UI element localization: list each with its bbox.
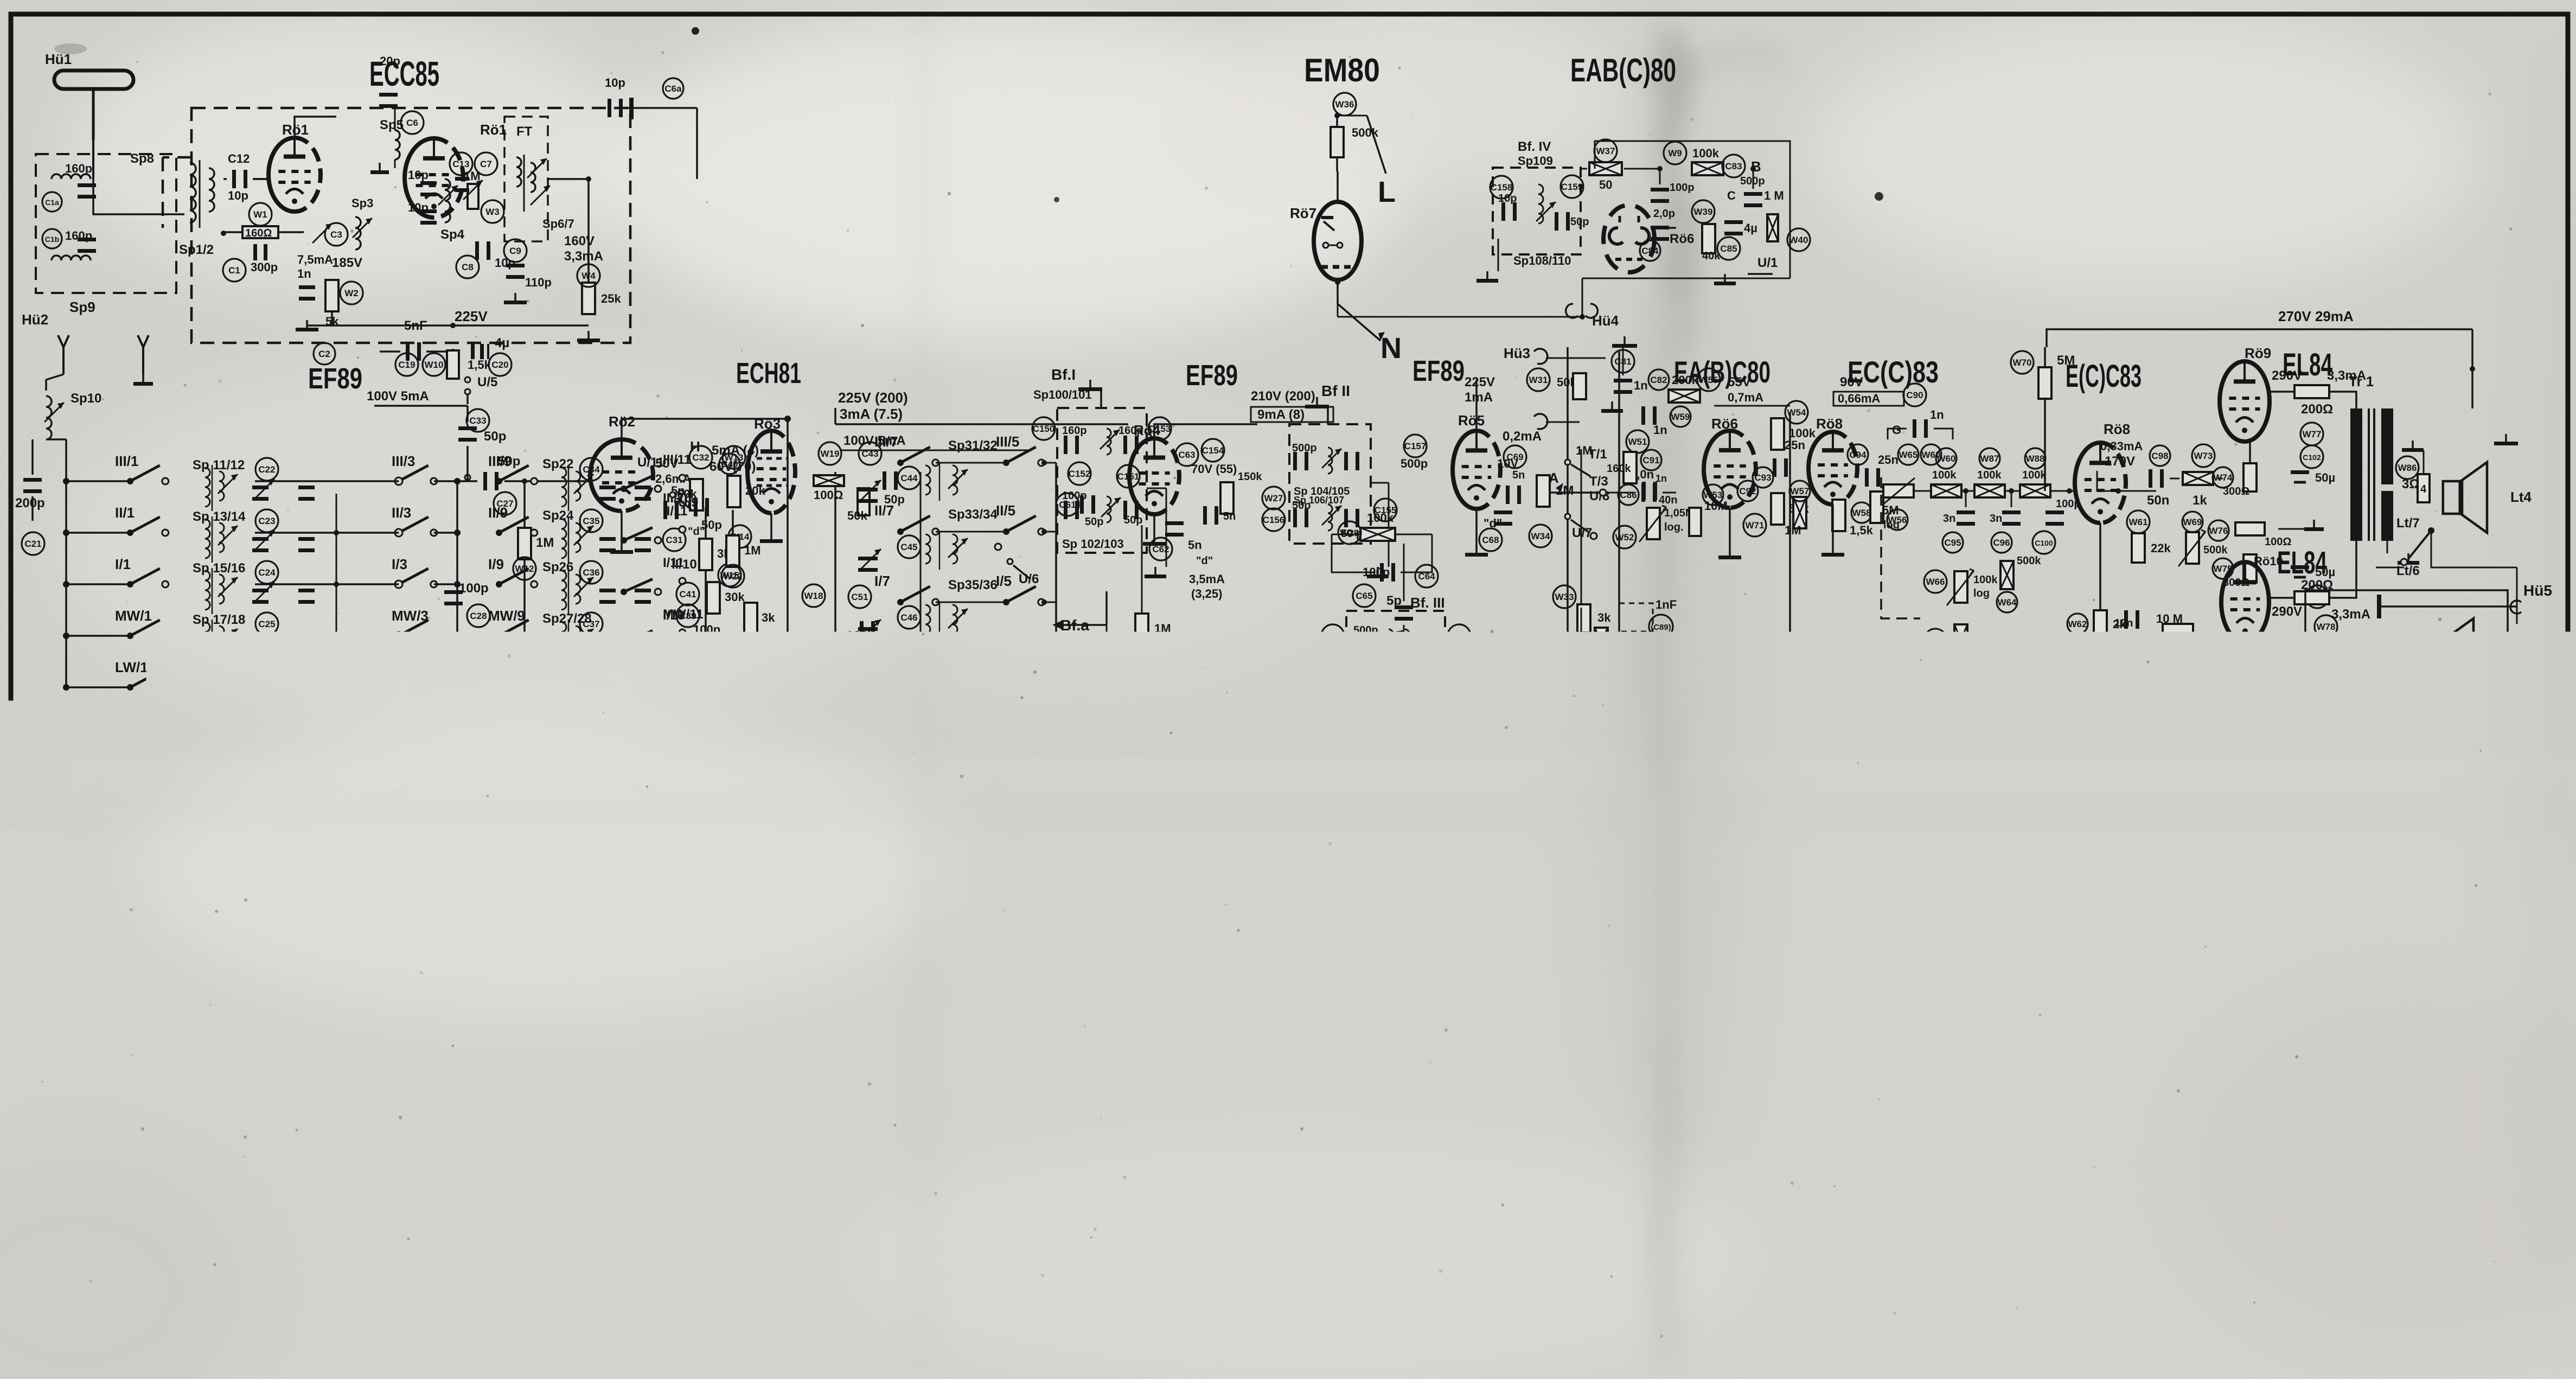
- svg-text:C83: C83: [1725, 161, 1742, 171]
- svg-text:5n: 5n: [1223, 510, 1236, 522]
- table caption 2: [1134, 1244, 1394, 1262]
- svg-text:Si 2: Si 2: [2331, 1054, 2353, 1067]
- capacitor C62 5n: [1149, 521, 1213, 567]
- svg-text:k': k': [753, 1202, 762, 1214]
- svg-text:3,3mA: 3,3mA: [564, 249, 603, 264]
- wattage symbol 3W: [1666, 1122, 1689, 1222]
- ground ecc83: [1821, 505, 1844, 557]
- resistor W89 10k: [1924, 624, 1992, 656]
- svg-text:C26: C26: [296, 733, 313, 743]
- switch I/5: [996, 573, 1047, 605]
- svg-text:160V: 160V: [564, 234, 595, 248]
- svg-text:a: a: [880, 1037, 887, 1051]
- wire Roe5 top: [1475, 380, 1478, 431]
- svg-text:Alle Spannungen gemessen mit M: Alle Spannungen gemessen mit Multizet I …: [2036, 1220, 2447, 1237]
- svg-text:g: g: [650, 1218, 656, 1230]
- capacitor C11: [1832, 1078, 1879, 1110]
- ref C36: [580, 561, 603, 584]
- capacitor 25n out: [1848, 444, 1899, 487]
- svg-text:10p: 10p: [495, 256, 515, 270]
- capacitor 100p fb: [1332, 534, 1438, 588]
- resistor W37 50: [1581, 139, 1663, 191]
- switch U/2: [1403, 833, 1560, 893]
- svg-text:Sp 15/16: Sp 15/16: [193, 561, 245, 576]
- svg-text:Sp10: Sp10: [71, 391, 101, 406]
- svg-text:U/1: U/1: [1757, 256, 1778, 270]
- svg-text:290V: 290V: [2272, 604, 2302, 619]
- wire row II: [255, 532, 399, 534]
- wire IF bus right: [1107, 625, 1404, 717]
- svg-text:25k: 25k: [601, 292, 621, 305]
- svg-text:C1b: C1b: [45, 235, 59, 244]
- svg-text:300V: 300V: [2139, 877, 2170, 892]
- svg-text:k: k: [849, 1099, 855, 1111]
- svg-text:90V: 90V: [1840, 375, 1863, 390]
- dashed 1nF box: [1619, 598, 1677, 639]
- capacitor C25b: [298, 640, 315, 655]
- label 2L5V: [2267, 766, 2296, 780]
- svg-text:a: a: [146, 1037, 154, 1051]
- svg-text:C10: C10: [1927, 1037, 1944, 1047]
- svg-text:Rö3: Rö3: [754, 416, 781, 432]
- switch U/9: [670, 492, 698, 510]
- svg-text:3 - 4: 3 - 4: [2439, 942, 2468, 959]
- tube Roe11 EL84: [2219, 693, 2270, 771]
- svg-text:1k: 1k: [2197, 743, 2211, 757]
- ref W9: [1664, 142, 1686, 164]
- label 225V 1mA: [1465, 368, 1586, 405]
- svg-text:f: f: [883, 1154, 887, 1168]
- svg-text:C1: C1: [228, 265, 240, 276]
- capacitor C35a: [599, 537, 616, 552]
- svg-text:5: 5: [1474, 1105, 1482, 1120]
- svg-text:W73: W73: [2194, 451, 2213, 461]
- resistor 150k: [1220, 471, 1262, 514]
- svg-text:C106: C106: [2116, 730, 2134, 738]
- label 290V b: [2272, 604, 2370, 622]
- capacitor C26b: [298, 692, 315, 707]
- svg-text:f: f: [126, 1154, 130, 1168]
- coil SpL1: [1931, 1068, 1977, 1090]
- svg-text:gT: gT: [284, 1098, 297, 1110]
- pinout tube EABC80: [415, 1023, 520, 1168]
- svg-text:100k: 100k: [1977, 469, 2002, 481]
- svg-text:100k: 100k: [1367, 511, 1394, 525]
- capacitor 50n coupling: [2147, 445, 2170, 508]
- svg-text:C99: C99: [2147, 707, 2164, 717]
- svg-text:W74: W74: [2214, 473, 2233, 483]
- switch I/9: [488, 556, 835, 588]
- svg-text:f: f: [364, 1154, 368, 1168]
- svg-text:Sp35/36: Sp35/36: [948, 578, 998, 592]
- Bf.II bottom: [1292, 500, 1363, 540]
- label 20k left: [117, 707, 181, 737]
- svg-text:a: a: [496, 1191, 502, 1203]
- coil Sp8 ps: [1888, 1054, 1929, 1090]
- wire Tr3 top right: [2236, 891, 2470, 987]
- svg-text:W25: W25: [1156, 650, 1175, 661]
- svg-text:W1: W1: [253, 209, 267, 220]
- wire anode to Tr1 b: [2349, 541, 2356, 598]
- pinout tube EL84: [525, 1023, 639, 1168]
- label EF89: [1412, 355, 1465, 387]
- svg-text:g1: g1: [397, 1096, 409, 1108]
- svg-text:W34: W34: [1531, 531, 1551, 541]
- switch III/5: [996, 433, 1047, 466]
- svg-text:Sp8: Sp8: [130, 151, 154, 166]
- resistor 40k: [1702, 224, 1721, 262]
- svg-text:W31: W31: [1529, 375, 1548, 385]
- label A: [1549, 470, 1563, 491]
- speaker Lt3: [2438, 618, 2519, 675]
- pinout tube AZ12: [771, 1023, 817, 1168]
- svg-text:10M: 10M: [1704, 499, 1728, 513]
- capacitor 50p U9: [694, 498, 722, 532]
- resistor 20k LW: [503, 678, 557, 733]
- wire row LW/5: [936, 742, 1056, 743]
- wire EM80 L: [1337, 116, 1386, 174]
- resistor W58 1,5k: [1832, 500, 1874, 537]
- svg-text:Lt/7: Lt/7: [2396, 516, 2420, 531]
- svg-text:LW/3: LW/3: [392, 659, 425, 675]
- svg-text:4: 4: [2278, 943, 2285, 955]
- svg-text:4: 4: [2303, 937, 2309, 949]
- svg-text:W19: W19: [821, 449, 840, 459]
- svg-text:Rö6: Rö6: [1711, 416, 1738, 432]
- capacitor C37b: [635, 640, 651, 655]
- svg-text:f: f: [131, 1180, 135, 1192]
- switch II/5: [996, 502, 1047, 535]
- svg-text:1 M: 1 M: [1764, 189, 1784, 202]
- switch MW/3: [392, 608, 461, 640]
- svg-text:50k: 50k: [847, 509, 867, 522]
- resistor W15 3k: [699, 507, 741, 717]
- pinout socket EF89: [315, 1180, 394, 1248]
- svg-text:W17: W17: [704, 683, 723, 693]
- svg-text:Rö12: Rö12: [2072, 900, 2104, 915]
- svg-text:C38: C38: [583, 671, 599, 681]
- resistor W70 5M: [2011, 347, 2075, 491]
- ground Roe4: [1143, 514, 1166, 546]
- svg-text:k': k': [649, 1202, 657, 1214]
- svg-text:270V: 270V: [2257, 648, 2290, 664]
- capacitor C38a: [599, 692, 616, 707]
- svg-text:C8: C8: [462, 262, 474, 272]
- dashed box FT: [504, 117, 548, 241]
- svg-text:20k: 20k: [117, 722, 139, 737]
- lamp L1: [2110, 1073, 2132, 1116]
- svg-text:"d" = dämpfungsarm: "d" = dämpfungsarm: [1537, 1071, 1688, 1088]
- svg-text:I/3: I/3: [392, 556, 407, 572]
- svg-text:aT: aT: [449, 1037, 463, 1051]
- capacitor C22b: [298, 486, 315, 501]
- svg-text:4µ: 4µ: [1744, 221, 1757, 235]
- resistor 100k det: [1692, 146, 1761, 177]
- svg-text:3n: 3n: [1990, 513, 2002, 525]
- title block bottom row: [2041, 1354, 2145, 1364]
- ground Roe2: [610, 511, 633, 554]
- svg-text:1142.002-00002 Sp: 1142.002-00002 Sp: [2300, 1329, 2532, 1361]
- svg-text:C28: C28: [470, 611, 487, 621]
- svg-text:255V (240): 255V (240): [2266, 786, 2331, 801]
- label Bf.IV: [1518, 139, 1553, 168]
- capacitor C38b: [635, 692, 651, 707]
- svg-text:W27: W27: [1264, 493, 1283, 503]
- Bf.I top circuit: [1062, 425, 1143, 455]
- label ECH81: [736, 357, 801, 390]
- resistor 3k mix: [702, 584, 825, 699]
- switch MW/5: [996, 643, 1047, 675]
- label 225V 3mA: [835, 390, 1128, 424]
- svg-text:3: 3: [2312, 1043, 2318, 1055]
- svg-text:a': a': [322, 1236, 330, 1248]
- svg-text:Rö9: Rö9: [2245, 345, 2271, 361]
- capacitor 500p osc: [867, 759, 980, 836]
- svg-text:W11: W11: [393, 707, 412, 717]
- wire lamps: [2094, 1090, 2197, 1118]
- svg-text:W21: W21: [1033, 771, 1052, 781]
- svg-text:5M: 5M: [1882, 503, 1899, 517]
- label U/11 H: [637, 438, 759, 474]
- svg-text:Si 1: Si 1: [2168, 911, 2189, 925]
- tube Roe5 EF89: [1453, 412, 1500, 509]
- svg-text:a: a: [904, 1037, 911, 1051]
- resistor W62 2k: [2067, 523, 2126, 637]
- coil Sp26: [542, 560, 593, 614]
- fuse Si2: [2327, 1042, 2372, 1107]
- resistor W60 100k: [1931, 448, 1961, 497]
- tube Roe1 triode B: [405, 122, 507, 218]
- svg-text:A: A: [1549, 470, 1559, 486]
- heater Hue5: [2377, 582, 2552, 618]
- wattage symbol 0,5W: [1572, 1122, 1607, 1222]
- arrow Bf.a in: [1052, 591, 1107, 634]
- label 210V 9mA: [1251, 389, 1333, 422]
- svg-text:log: log: [1883, 519, 1900, 531]
- wire ps right: [2386, 1069, 2387, 1118]
- svg-text:W57: W57: [1791, 486, 1810, 496]
- pot W69 500k: [2178, 512, 2228, 566]
- capacitor 10p upper: [408, 168, 437, 196]
- resistor 3ohm: [2396, 440, 2430, 502]
- capacitor 5n d: [1479, 510, 1552, 551]
- ref C24: [255, 561, 278, 584]
- svg-text:C66: C66: [1490, 699, 1506, 710]
- svg-text:a: a: [166, 1191, 172, 1203]
- capacitor 3n A: [1942, 491, 1975, 553]
- coil Sp8 upper: [52, 162, 92, 179]
- svg-text:50n: 50n: [2147, 493, 2169, 508]
- svg-text:110p: 110p: [525, 276, 552, 289]
- capacitor 50n bus: [233, 877, 293, 992]
- capacitor C123 5n b: [2120, 955, 2187, 982]
- capacitor C9 110p: [504, 239, 552, 289]
- osc trim C29c: [836, 712, 878, 768]
- svg-text:C104: C104: [2000, 771, 2018, 780]
- ref C6a: [663, 78, 683, 99]
- svg-text:C34: C34: [583, 464, 600, 475]
- switch LW/11: [621, 659, 700, 698]
- label EAB(C)80: [1570, 52, 1676, 88]
- refs Bf.I: [1032, 417, 1171, 488]
- wire bus mid join: [1567, 890, 1569, 912]
- svg-text:20k: 20k: [373, 733, 393, 747]
- svg-text:Nr.: Nr.: [2534, 1336, 2547, 1346]
- svg-text:P: P: [2534, 1325, 2541, 1336]
- label EL84: [2277, 545, 2327, 580]
- svg-text:Hü3: Hü3: [1504, 345, 1530, 361]
- capacitor 200p: [15, 439, 45, 521]
- trimmer C3 + coil Sp3: [312, 196, 373, 250]
- svg-text:II/3: II/3: [392, 505, 411, 521]
- svg-text:8µ: 8µ: [1801, 723, 1814, 736]
- switch T/1: [1565, 447, 1607, 476]
- transformer Tr1: [2349, 373, 2393, 541]
- ref W36: [1333, 93, 1356, 116]
- ground tuner: [296, 320, 318, 331]
- label EL84: [2283, 347, 2332, 382]
- Bf.I bottom circuit: [1062, 490, 1142, 526]
- svg-text:C42: C42: [690, 654, 707, 665]
- switch II/1: [63, 505, 169, 536]
- resistor W75 300ohm: [2213, 554, 2257, 589]
- svg-text:W53: W53: [1704, 490, 1723, 500]
- svg-text:1n: 1n: [1930, 408, 1944, 422]
- svg-text:50p: 50p: [484, 429, 506, 444]
- switch III/3: [392, 453, 461, 485]
- bank2 left bus: [834, 472, 836, 678]
- svg-text:II/10: II/10: [672, 557, 697, 572]
- svg-text:9mA (8): 9mA (8): [1257, 407, 1305, 422]
- capacitor 500p det: [1740, 166, 1765, 207]
- wire Roe2 anode: [622, 416, 791, 717]
- capacitor C23b: [298, 537, 315, 552]
- switch MW/1: [63, 608, 169, 639]
- label G 1n: [1888, 408, 1953, 439]
- svg-text:f: f: [581, 1180, 585, 1192]
- label Sp111/112: [1372, 682, 1434, 697]
- svg-text:50: 50: [1599, 178, 1612, 191]
- svg-text:160p: 160p: [65, 229, 92, 242]
- svg-text:g: g: [730, 1096, 737, 1108]
- svg-text:Sp1/2: Sp1/2: [179, 242, 214, 257]
- resistor W4 25k: [577, 264, 621, 342]
- svg-text:500p: 500p: [1401, 457, 1428, 470]
- switch LW/5: [996, 713, 1047, 745]
- svg-text:k: k: [397, 1110, 403, 1122]
- selector fan: [2236, 937, 2369, 1055]
- svg-text:H: H: [690, 438, 700, 455]
- Bf.III circuit: [1353, 624, 1438, 658]
- svg-text:W55: W55: [1699, 375, 1718, 385]
- svg-text:II/7: II/7: [874, 502, 894, 519]
- svg-text:500p: 500p: [1292, 442, 1317, 454]
- label Bf.II: [1321, 382, 1350, 399]
- svg-text:C122: C122: [2453, 823, 2471, 832]
- svg-text:C82: C82: [1650, 375, 1667, 385]
- capacitor C36b: [635, 589, 651, 604]
- svg-text:C31: C31: [666, 535, 682, 545]
- resistor 500ohm: [2338, 777, 2490, 808]
- switch I/11: [621, 556, 686, 595]
- switch I/7: [874, 573, 939, 605]
- svg-text:4W: 4W: [1695, 1205, 1717, 1222]
- svg-text:Rö6: Rö6: [2038, 1036, 2061, 1050]
- svg-text:225V (200): 225V (200): [838, 390, 908, 406]
- tube Roe6b EABC80: [1704, 416, 1756, 508]
- svg-text:III/7: III/7: [874, 433, 898, 450]
- switch II/9: [488, 505, 835, 536]
- svg-text:"d": "d": [1196, 555, 1213, 567]
- svg-text:g3: g3: [397, 1082, 409, 1094]
- resistor W73 1k: [2170, 444, 2223, 508]
- svg-text:f: f: [344, 1154, 349, 1168]
- antenna Hue1: [45, 51, 133, 179]
- wattage symbol 4W: [1695, 1122, 1717, 1222]
- svg-text:11: 11: [1474, 1018, 1489, 1033]
- label Spannungswaehler: [2373, 904, 2513, 922]
- pinout socket ECC85: [97, 1180, 176, 1248]
- svg-text:Sp31/32: Sp31/32: [948, 438, 998, 453]
- svg-text:aT: aT: [284, 1084, 296, 1096]
- svg-text:g: g: [98, 1218, 104, 1230]
- resistor 1M Roe5: [1537, 475, 1574, 507]
- label 290V 3,3mA a: [2272, 368, 2366, 383]
- pinout tube ECC83: [848, 1023, 942, 1168]
- svg-text:5n: 5n: [1947, 1044, 1961, 1058]
- svg-text:210V (200): 210V (200): [1251, 389, 1315, 404]
- svg-text:1,5k: 1,5k: [468, 358, 491, 372]
- svg-text:200p: 200p: [15, 496, 45, 510]
- wire af long: [1403, 643, 1405, 711]
- svg-text:C40: C40: [721, 459, 738, 469]
- capacitor C6 20p: [379, 54, 424, 134]
- svg-text:L1: L1: [2111, 1073, 2125, 1087]
- svg-text:10n: 10n: [2114, 617, 2133, 629]
- resistor W80 500k: [2125, 783, 2158, 839]
- svg-text:3,5mA: 3,5mA: [1189, 572, 1225, 586]
- svg-text:a': a': [860, 1236, 869, 1248]
- svg-text:1 - 2a: 1 - 2a: [2439, 972, 2476, 988]
- svg-text:300p: 300p: [251, 260, 278, 274]
- svg-text:f: f: [683, 1180, 687, 1192]
- resistor 50k osc: [819, 442, 870, 522]
- svg-text:EF89: EF89: [1186, 359, 1238, 392]
- svg-text:g1H: g1H: [183, 1107, 203, 1119]
- svg-text:W68: W68: [2187, 667, 2206, 677]
- coil Sp 11/12: [193, 458, 245, 511]
- svg-text:Tag: Tag: [2100, 1355, 2115, 1364]
- svg-text:C3: C3: [330, 229, 342, 240]
- svg-text:W18: W18: [804, 591, 823, 601]
- svg-text:0,2mA: 0,2mA: [1503, 429, 1542, 444]
- svg-text:Lt Z: Lt Z: [2495, 686, 2519, 701]
- svg-text:Fabl. fl: Fabl. fl: [2251, 1295, 2286, 1307]
- svg-text:Änd: Änd: [2057, 1354, 2074, 1364]
- svg-text:f: f: [361, 1180, 365, 1192]
- svg-text:L: L: [1378, 176, 1396, 208]
- ref W39: [1692, 200, 1715, 223]
- svg-text:f: f: [571, 1180, 574, 1192]
- svg-text:C29: C29: [582, 710, 599, 720]
- svg-text:C90: C90: [1906, 390, 1923, 400]
- svg-text:a: a: [605, 1191, 612, 1203]
- fuse Si1: [2138, 911, 2197, 960]
- svg-text:C41: C41: [679, 589, 696, 599]
- switch I/3: [392, 556, 461, 588]
- svg-text:W29: W29: [1340, 528, 1359, 538]
- resistor 500k EM80: [1331, 113, 1379, 157]
